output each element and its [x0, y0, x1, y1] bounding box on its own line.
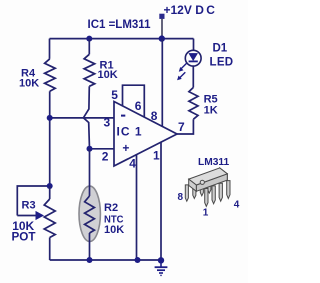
svg-text:LM311: LM311 [198, 157, 229, 168]
node junction top rail / R1 [86, 36, 92, 42]
LED D1 anode triangle [189, 53, 198, 60]
DIP body front face [196, 174, 227, 192]
wire pin2 node to R2 [89, 149, 91, 196]
resistor R4 [45, 59, 56, 92]
svg-text:D1: D1 [213, 43, 228, 55]
svg-text:4: 4 [234, 199, 240, 210]
wire top +12V rail [50, 38, 194, 40]
+12V terminal square [160, 14, 165, 19]
DIP front pins [205, 189, 208, 207]
wire R1 top lead [88, 39, 90, 55]
wire R1 bottom lead with pinch junction [83, 86, 89, 149]
R3 wiper arrow [17, 215, 38, 217]
svg-text:LED: LED [210, 56, 234, 68]
svg-text:3: 3 [104, 116, 111, 130]
node junction top rail / +12V [159, 35, 165, 41]
svg-text:7: 7 [178, 120, 185, 134]
svg-text:1K: 1K [204, 105, 218, 117]
wire pot top lead [49, 186, 51, 199]
wire +12V stub [161, 19, 163, 37]
svg-text:R3: R3 [22, 200, 36, 212]
svg-text:1: 1 [203, 207, 209, 218]
thermistor R2 body ellipse [79, 186, 100, 241]
svg-text:R5: R5 [204, 93, 218, 105]
node junction R3 wiper [47, 183, 53, 189]
DIP body left face [189, 179, 197, 191]
DIP body top face [189, 168, 228, 185]
svg-text:10K: 10K [19, 77, 39, 89]
svg-text:8: 8 [178, 192, 184, 203]
wire R2 to ground rail [89, 233, 91, 260]
wire pin4 to ground rail [136, 154, 138, 260]
wire left column top [49, 39, 51, 59]
wire pin5-pin6 balance loop [123, 85, 145, 117]
wire LED to R5 [192, 66, 194, 87]
node junction pin4/rail [135, 257, 141, 263]
DIP body right face [220, 168, 228, 180]
node junction R1/R2/pin2 [87, 146, 93, 152]
node junction R2/rail [87, 257, 93, 263]
DIP notch dot [200, 180, 204, 184]
svg-text:8: 8 [151, 109, 158, 123]
wire R3 wiper horizontal [17, 186, 49, 216]
wire bottom ground rail [50, 259, 161, 261]
wire left column mid [49, 91, 51, 186]
IC package LM311 DIP-8 [185, 168, 230, 207]
potentiometer R3 body [44, 199, 55, 238]
wire pin2 input [90, 148, 114, 150]
svg-text:2: 2 [102, 149, 109, 163]
ground symbol [155, 260, 168, 275]
svg-text:10K: 10K [98, 69, 118, 81]
LED emission arrow 2 [180, 72, 186, 78]
wire pin3 input [50, 117, 114, 119]
svg-text:4: 4 [129, 157, 136, 171]
svg-text:IC1 =LM311: IC1 =LM311 [88, 19, 152, 31]
svg-text:10K: 10K [104, 224, 124, 236]
LED emission arrow 1 [181, 63, 186, 68]
LED D1 cathode bar [189, 60, 198, 62]
svg-text:POT: POT [12, 231, 37, 244]
resistor R5 [189, 87, 198, 119]
label minus input [121, 115, 125, 117]
svg-text:6: 6 [135, 99, 142, 113]
svg-text:+: + [122, 141, 129, 155]
resistor R2 zigzag [85, 196, 95, 233]
svg-text:+12V DC: +12V DC [164, 3, 216, 17]
DIP back pins [185, 185, 188, 201]
wire pot bottom lead [49, 238, 51, 261]
svg-text:IC 1: IC 1 [117, 125, 143, 139]
svg-text:5: 5 [111, 88, 118, 102]
op-amp IC1 triangle [114, 102, 177, 167]
node junction R4/pin3 [47, 115, 53, 121]
node junction pin1/rail/ground [158, 257, 164, 263]
wire pin1 to ground rail [160, 142, 162, 260]
svg-text:1: 1 [153, 149, 160, 163]
wire pin8 to +12V [161, 39, 163, 127]
wire pin7 output [177, 119, 193, 134]
resistor R1 [84, 54, 95, 86]
wire rail to LED [193, 39, 195, 51]
LED D1 circle [185, 50, 201, 66]
